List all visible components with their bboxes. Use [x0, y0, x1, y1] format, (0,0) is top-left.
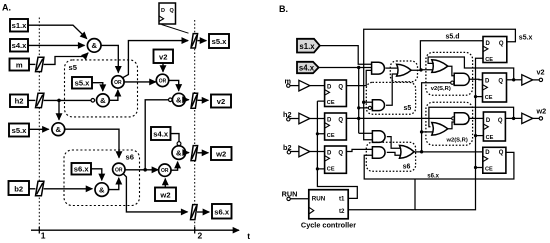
input box s4.x: [10, 39, 28, 52]
node s6 net at w2SR: [420, 130, 423, 133]
node w2 feedback: [512, 117, 515, 120]
PANEL_A: [2, 3, 250, 241]
box w2 (feedback): [155, 188, 176, 202]
time axis t: [31, 227, 250, 241]
svg-text:Cycle controller: Cycle controller: [301, 220, 356, 229]
buffer m: [299, 80, 310, 91]
AND gate A5 (b2 & s6.x): [95, 183, 109, 197]
wire h2 branch down to AND A4 top: [58, 100, 60, 119]
wire s6 net branch to w2SR OR: [422, 131, 433, 133]
svg-text:w2: w2: [536, 107, 547, 116]
wire AND A5 to OR A3 bottom: [109, 178, 119, 190]
svg-text:OR: OR: [159, 78, 167, 84]
svg-text:&: &: [176, 148, 182, 157]
input box h2: [10, 95, 28, 108]
D flip-flop U6 (w2 out): [483, 112, 505, 141]
wire OR B3 to AND B5: [448, 66, 454, 76]
svg-text:h2: h2: [15, 97, 24, 106]
time axis line 2 (dashed, tick 2): [194, 20, 196, 230]
AND gate A3 (v2 path): [172, 93, 185, 106]
input terminal b2: [283, 143, 299, 154]
svg-text:m: m: [16, 60, 23, 69]
svg-text:&: &: [91, 41, 97, 50]
wire register to output v2: [198, 99, 209, 101]
svg-text:s6.x: s6.x: [427, 173, 439, 179]
node OR B1 output branch: [419, 68, 422, 71]
inverter bubble at AND B2 lower input: [368, 106, 371, 109]
output box w2: [211, 147, 232, 160]
wire t2 to output register clock chain: [348, 58, 483, 210]
node s6 net at OR B2 output: [420, 150, 423, 153]
wire b2 to register: [29, 188, 35, 190]
node h2 net branch: [357, 117, 360, 120]
wire s5.x feedback branch to AND B2: [364, 101, 373, 103]
wire register to output w2: [198, 152, 209, 154]
D flip-flop U1 (m): [325, 80, 347, 107]
svg-text:Q: Q: [170, 8, 175, 14]
output terminal w2: [539, 117, 542, 120]
box s6.x inside s6: [72, 163, 92, 175]
svg-text:2: 2: [198, 231, 203, 241]
wire AND A1 to OR A1 top: [101, 45, 118, 72]
svg-text:CE: CE: [485, 95, 493, 101]
svg-text:s4.x: s4.x: [12, 41, 28, 50]
svg-text:D: D: [327, 84, 332, 90]
wire OR A4 to AND A6 bottom: [171, 162, 178, 170]
AND gate B6 (w2 R): [454, 113, 469, 125]
wire OR A3 output to OR A4: [125, 169, 158, 171]
svg-text:OR: OR: [115, 167, 123, 173]
cycle controller box: [309, 190, 348, 219]
svg-text:Q: Q: [499, 150, 504, 156]
OR gate B4 (w2 set): [432, 123, 448, 136]
svg-text:w2: w2: [215, 150, 226, 159]
D flip-flop U3 (b2): [325, 146, 347, 173]
wire OR B4 to AND B6: [448, 122, 455, 129]
wire AND B5 to v2 DFF D: [469, 78, 482, 81]
wire OR B1 to s5.d and v2SR: [411, 41, 483, 70]
svg-text:t2: t2: [339, 208, 345, 215]
node CE chain at U2: [316, 132, 319, 135]
svg-text:&: &: [100, 96, 106, 105]
svg-text:s5.x: s5.x: [212, 37, 228, 46]
D flip-flop U5 (v2 out): [483, 73, 507, 102]
svg-text:CE: CE: [327, 100, 335, 106]
AND gate B4 (b2 & s6.x): [372, 147, 385, 159]
wire w2 Q to buffer: [505, 117, 521, 119]
wire register to output s6.x: [197, 211, 209, 213]
node t2 at v2 CE: [474, 95, 477, 98]
wire register to output s5.x: [198, 40, 207, 42]
box v2 (feedback): [154, 50, 174, 64]
OR gate B2 (s6): [400, 145, 415, 158]
output box s5.x: [209, 34, 229, 48]
svg-text:B.: B.: [279, 4, 288, 14]
svg-text:D: D: [327, 117, 332, 123]
svg-text:D: D: [486, 41, 491, 47]
wire s5.x feedback down to AND B2 and AND B3: [364, 29, 516, 140]
node t2 at s6 CE: [474, 166, 477, 169]
wire AND B6 to w2 DFF D: [469, 117, 483, 119]
svg-text:s5.x: s5.x: [75, 79, 91, 88]
wire m register to AND A1: [44, 53, 88, 65]
svg-text:RUN: RUN: [312, 196, 326, 203]
svg-text:D: D: [486, 118, 491, 124]
wire AND B2 to OR B1: [386, 74, 400, 105]
svg-text:D: D: [327, 150, 332, 156]
svg-text:v2: v2: [159, 53, 167, 62]
wire w2 feedback to OR B4: [429, 107, 514, 127]
svg-text:v2: v2: [217, 97, 225, 106]
svg-text:Q: Q: [498, 118, 503, 124]
inverter bubble at AND A2 input: [91, 99, 95, 103]
svg-text:s6.x: s6.x: [214, 208, 230, 217]
dashed group s5 lower lobe: [366, 82, 415, 114]
wire v2 down to OR A2 top: [162, 63, 164, 72]
AND gate B5 (v2 R): [454, 73, 469, 85]
svg-text:1: 1: [41, 231, 46, 241]
node h2 branch: [57, 99, 61, 103]
wire m Q up to AND B1: [346, 70, 372, 85]
wire s4.x to AND B1: [319, 67, 373, 69]
dashed group s6 (panel B): [366, 142, 415, 171]
svg-text:s6.x: s6.x: [74, 165, 90, 174]
svg-text:s6: s6: [403, 164, 411, 171]
svg-text:OR: OR: [114, 80, 122, 86]
wire s4.x branch down to AND B2 (bubbled): [359, 68, 369, 134]
wire t2 branch to s6 DFF CE: [476, 167, 483, 169]
wire OR B2 to s6 DFF D: [414, 151, 483, 153]
wire t2 branch to w2 DFF CE: [476, 135, 484, 137]
node s6 net branch: [143, 168, 147, 172]
wire s6.x feedback up to AND B4: [364, 152, 514, 179]
input terminal h2: [283, 110, 299, 121]
wire from s6.x line down to t2 line: [414, 179, 416, 210]
svg-text:s5: s5: [404, 105, 412, 112]
svg-text:OR: OR: [161, 168, 169, 174]
time axis line 1 (dashed, tick 1): [38, 18, 40, 231]
wire s1.x down to AND B1: [320, 46, 372, 65]
wire AND B4 to OR B2: [387, 152, 402, 155]
svg-text:Q: Q: [338, 117, 343, 123]
input box s1.x: [10, 19, 28, 32]
node v2 feedback: [512, 78, 515, 81]
OR gate A2 (v2): [156, 74, 168, 86]
svg-text:&: &: [56, 125, 62, 134]
inverter bubble at w2SR AND upper input: [452, 117, 455, 120]
OR gate A1 (s5): [112, 76, 124, 88]
svg-text:t: t: [247, 231, 250, 241]
svg-text:CE: CE: [327, 133, 335, 139]
OR gate B1 (s5): [397, 64, 412, 76]
wire OR A1 output to OR A2: [123, 81, 156, 83]
AND gate A2 (s5 hold): [97, 94, 110, 107]
svg-text:b2: b2: [14, 184, 23, 193]
svg-text:CE: CE: [485, 57, 493, 63]
dashed group box s6: [64, 150, 140, 206]
svg-text:s1.x: s1.x: [299, 42, 315, 51]
signal tag s1.x: [297, 39, 320, 53]
register w2 (tick 2): [191, 146, 198, 161]
svg-text:s5: s5: [69, 63, 78, 72]
svg-text:D: D: [485, 78, 490, 84]
wire v2 Q to buffer: [507, 79, 522, 81]
svg-text:s5.x: s5.x: [519, 34, 533, 41]
signal tag s4.x: [297, 62, 319, 73]
box s4.x (w2 path): [151, 127, 171, 140]
wire s5.x input to AND A4: [29, 128, 49, 130]
D flip-flop U7 (s6.x out): [483, 147, 506, 173]
wire w2 up to OR A4 bottom: [164, 179, 166, 188]
register b2 (tick 1): [36, 181, 44, 195]
wire t2 branch to v2 DFF CE: [476, 96, 483, 98]
wire t1 CE chain: [317, 101, 357, 198]
svg-text:t1: t1: [339, 196, 345, 203]
svg-text:Q: Q: [338, 150, 343, 156]
wire AND A6 to register w2: [186, 152, 189, 154]
svg-text:s4.x: s4.x: [299, 64, 315, 73]
AND gate A1 (s1.x & s4.x & m): [87, 39, 101, 53]
dashed group w2(S,R): [426, 102, 473, 145]
svg-text:&: &: [99, 185, 105, 194]
D-Q flip-flop legend U0: [159, 3, 189, 33]
wire s1.x to AND A1: [28, 25, 87, 38]
wire h2 Q to AND B3 and w2SR AND: [346, 117, 451, 119]
wire s6 net up to AND A3 (bubbled input): [145, 100, 168, 170]
AND gate A6 (w2 path): [172, 146, 186, 160]
svg-text:D: D: [485, 150, 490, 156]
register h2 (tick 1): [36, 93, 44, 107]
node s5.x feedback at AND B2: [362, 101, 365, 104]
input box s5.x: [9, 124, 29, 137]
inverter bubble at v2SR AND lower input: [451, 81, 454, 84]
register s6.x (tick 2): [191, 205, 198, 220]
buffer b2: [299, 146, 310, 157]
input terminal RUN: [282, 189, 309, 200]
wire m buffer to DFF1 D: [310, 85, 325, 87]
svg-text:s5.d: s5.d: [445, 33, 459, 40]
register m (tick 1): [36, 57, 44, 71]
svg-text:Q: Q: [498, 78, 503, 84]
wire b2 register to AND A5: [44, 188, 93, 190]
dashed group box s5: [65, 60, 138, 117]
wire b2 Q to AND B4: [346, 149, 373, 151]
D flip-flop U4 (s5.x out): [483, 37, 507, 64]
dashed group v2(S,R): [426, 52, 473, 95]
wire OR A1 branch up to register s5.x: [122, 41, 188, 79]
output box s6.x: [212, 204, 232, 219]
wire m to register: [29, 63, 35, 65]
wire v2 feedback to OR B3: [428, 57, 514, 80]
svg-text:A.: A.: [2, 3, 11, 13]
svg-text:CE: CE: [486, 135, 494, 141]
buffer h2: [299, 113, 310, 124]
svg-text:v2: v2: [537, 67, 545, 76]
OR gate B3 (v2 set): [432, 60, 448, 73]
wire s4.x to AND A6 top (bubbled): [171, 134, 180, 142]
wire AND A2 to OR A1 bottom: [109, 90, 118, 100]
OR gate A4 (w2): [159, 164, 171, 176]
node t2 at w2 CE: [474, 134, 477, 137]
AND gate B2 (s5 hold): [372, 100, 384, 111]
inverter bubble at AND A3 input: [169, 98, 173, 102]
input box m: [10, 59, 30, 71]
buffer w2 out: [522, 113, 533, 123]
svg-text:D: D: [161, 8, 165, 14]
wire s6.x to AND A5 top: [91, 169, 102, 180]
svg-text:CE: CE: [327, 167, 335, 173]
wire h2 branch down to AND B3: [359, 132, 373, 134]
register s5.x (tick 2): [191, 34, 198, 48]
svg-text:w2: w2: [159, 191, 170, 200]
dashed group s5 upper lobe: [390, 61, 417, 82]
wire AND B1 to OR B1: [385, 67, 399, 69]
input box b2: [9, 181, 30, 195]
OR gate A3 (s6): [113, 163, 125, 175]
wire s4.x to AND A1: [28, 44, 85, 46]
svg-text:CE: CE: [485, 167, 493, 173]
AND gate A4 (h2 & s5.x): [52, 123, 65, 136]
wire s5.x to AND A2 top: [92, 83, 103, 91]
wire AND A4 to OR A3 top: [65, 129, 119, 158]
AND gate B1 (s1.s4.m): [372, 62, 385, 74]
svg-text:Q: Q: [499, 41, 504, 47]
output box v2: [211, 95, 231, 108]
wire h2 to register: [28, 99, 35, 101]
wire s6 net up to v2SR AND: [422, 83, 451, 152]
svg-text:&: &: [176, 96, 182, 105]
wire OR A3 branch down to register s6.x: [123, 174, 188, 212]
svg-text:w2(S,R): w2(S,R): [446, 137, 468, 143]
node at AND B2 branch: [357, 106, 360, 109]
node CE chain at U3: [316, 167, 319, 170]
svg-text:s1.x: s1.x: [12, 21, 28, 30]
wire b2 buffer to DFF3 D: [310, 151, 325, 153]
node s4.x branch: [357, 66, 360, 69]
svg-text:s5.x: s5.x: [12, 126, 28, 135]
wire AND A3 to register v2: [185, 99, 189, 101]
inverter bubble at AND A6 top input: [177, 142, 181, 146]
wire h2 buffer to DFF2 D: [310, 118, 325, 120]
buffer v2 out: [522, 75, 533, 85]
register v2 (tick 2): [191, 93, 198, 108]
wire AND B3 to OR B2: [387, 137, 402, 149]
wire h2 register to AND A2 (bubbled input): [44, 99, 91, 101]
AND gate B3 (h2 & s5.x): [372, 131, 385, 143]
svg-text:v2(S,R): v2(S,R): [431, 86, 451, 92]
output terminal v2: [539, 78, 542, 81]
PANEL_B: [279, 4, 546, 229]
svg-text:Q: Q: [338, 84, 343, 90]
input terminal m: [285, 77, 299, 88]
box s5.x inside s5: [72, 77, 92, 89]
svg-text:s6: s6: [126, 153, 134, 162]
D flip-flop U2 (h2): [325, 113, 347, 140]
svg-text:s4.x: s4.x: [153, 130, 169, 139]
wire OR A2 to AND A3 top: [169, 80, 179, 90]
